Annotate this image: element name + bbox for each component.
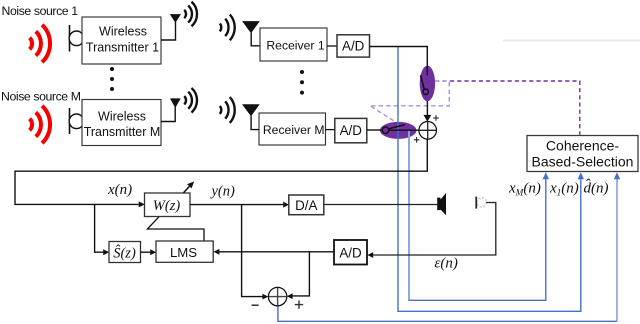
svg-text:Wireless: Wireless xyxy=(98,110,146,124)
block: Receiver 1 xyxy=(260,28,327,61)
svg-text:x1(n): x1(n) xyxy=(549,180,579,197)
svg-text:d̂(n): d̂(n) xyxy=(584,179,609,196)
svg-text:A/D: A/D xyxy=(339,245,362,260)
svg-text:LMS: LMS xyxy=(170,245,197,260)
dashed control line branch to switch S2 xyxy=(371,82,450,106)
wire Receiver 1 to A/D xyxy=(327,45,337,47)
svg-text:Receiver M: Receiver M xyxy=(263,123,325,137)
wire S-hat(z) to LMS xyxy=(141,251,151,253)
blue arrowhead into Coherence box (x1) xyxy=(578,172,584,179)
block: Receiver M xyxy=(259,113,326,145)
switch S2 contact xyxy=(382,127,388,133)
dashed control diagonal into switch S2 xyxy=(371,106,396,122)
wire x(n): summer 1 output down, left and down to W(z) xyxy=(15,139,427,204)
minus sign at summer 2 xyxy=(252,304,259,306)
radio waves TXM xyxy=(184,88,197,113)
branch wire y(n) down to summer 2 xyxy=(242,205,263,297)
plus sign bottom left of summer 1 xyxy=(414,137,420,143)
svg-text:D/A: D/A xyxy=(295,198,317,213)
svg-text:ε(n): ε(n) xyxy=(435,256,458,272)
zigzag wire W(z) to LMS xyxy=(147,217,204,241)
loudspeaker xyxy=(437,198,440,211)
svg-text:x(n): x(n) xyxy=(107,182,132,198)
branch wire error to summer 2 xyxy=(293,252,310,296)
adaptation arrow on W(z) xyxy=(184,186,190,193)
error microphone xyxy=(477,198,486,207)
summer 2 (circle plus) xyxy=(268,287,286,305)
svg-text:Coherence-: Coherence- xyxy=(546,138,619,154)
microphone M xyxy=(69,108,71,134)
svg-text:Noise source 1: Noise source 1 xyxy=(2,4,79,18)
stray gray line artifact top right xyxy=(503,40,640,42)
wire x1(n) blue tap from A/D 1 output to Coherence box (middle U) xyxy=(398,47,581,312)
antenna TX1 xyxy=(161,22,176,41)
arrowhead into W(z) xyxy=(139,201,145,207)
dashed control line from Coherence-Based-Selection to switch S1 xyxy=(450,81,580,135)
arrowhead into summer 2 right xyxy=(287,293,293,299)
radio waves RX1 xyxy=(220,15,235,41)
arrowhead into S-hat(z) xyxy=(103,249,109,255)
svg-text:Ŝ(z): Ŝ(z) xyxy=(113,245,136,262)
svg-text:Noise source M: Noise source M xyxy=(1,90,81,104)
radio waves RXM xyxy=(220,97,235,123)
svg-text:Wireless: Wireless xyxy=(99,24,147,38)
noise waves icon M (red) xyxy=(30,106,50,143)
antenna RXM xyxy=(242,104,260,116)
wire switch S1 to summer 1 with arrow xyxy=(426,101,428,116)
block: A/D (channel M) xyxy=(335,118,367,142)
block: Wireless Transmitter M xyxy=(82,100,161,146)
block: W(z) adaptive filter xyxy=(145,193,191,217)
svg-text:W(z): W(z) xyxy=(153,198,181,214)
arrowhead into A/D (error) xyxy=(367,252,373,258)
switch S1 lever xyxy=(421,75,425,89)
wire A/D1 output into switch S1 xyxy=(370,47,428,76)
svg-text:xM(n): xM(n) xyxy=(508,180,541,197)
svg-text:Transmitter M: Transmitter M xyxy=(84,125,161,139)
block: Wireless Transmitter 1 xyxy=(82,17,161,64)
switch S2 lever xyxy=(389,125,405,129)
plus sign top right of summer 1 xyxy=(433,115,439,121)
vertical dots between receivers xyxy=(300,70,304,74)
block: A/D (error channel) xyxy=(334,240,367,265)
wire Receiver M to A/D xyxy=(326,129,335,131)
wire W(z) output to D/A xyxy=(190,204,283,206)
microphone 1 xyxy=(69,25,71,52)
block: D/A xyxy=(289,195,324,215)
wire A/D M output through switch S2 xyxy=(367,129,382,131)
blue arrowhead into Coherence box (xM) xyxy=(543,172,549,179)
svg-text:Receiver 1: Receiver 1 xyxy=(266,38,324,52)
svg-text:Transmitter 1: Transmitter 1 xyxy=(86,40,159,54)
vertical dots between transmitters xyxy=(110,67,114,71)
switch ellipse S2 (horizontal, Receiver M channel) xyxy=(380,122,417,139)
arrowhead into LMS right xyxy=(214,249,220,255)
plus sign at summer 2 xyxy=(295,300,303,308)
svg-text:Based-Selection: Based-Selection xyxy=(532,154,634,170)
antenna RX1 xyxy=(242,21,260,33)
switch S1 contact xyxy=(423,89,428,94)
wire xM(n) blue tap after switch S2 to Coherence box (inner U) xyxy=(409,131,546,301)
block: S-hat(z) secondary path estimate xyxy=(109,242,141,263)
svg-text:y(n): y(n) xyxy=(210,184,236,200)
wire A/D error output to LMS xyxy=(219,251,334,253)
wire D/A to loudspeaker xyxy=(324,204,438,206)
block: LMS xyxy=(156,241,213,262)
block: Coherence-Based-Selection xyxy=(527,136,638,172)
noise waves icon 1 (red) xyxy=(30,25,50,62)
block: A/D (channel 1) xyxy=(337,35,370,57)
arrowhead into D/A xyxy=(283,202,289,208)
arrowhead into summer 2 left xyxy=(262,294,268,300)
arrowhead into LMS xyxy=(150,249,156,255)
summer 1 (circle plus) xyxy=(419,122,437,140)
branch wire to S-hat(z) xyxy=(95,204,104,252)
svg-text:A/D: A/D xyxy=(340,123,363,138)
antenna TXM xyxy=(161,107,175,122)
switch ellipse S1 (vertical, Receiver 1 channel) xyxy=(420,66,435,102)
svg-text:A/D: A/D xyxy=(342,39,365,54)
wire d-hat(n) blue from summer 2 output to Coherence box (outer U) xyxy=(278,306,617,322)
blue arrowhead into Coherence box (d-hat) xyxy=(614,172,620,179)
wire error microphone to A/D xyxy=(373,203,496,256)
radio waves TX1 xyxy=(184,2,197,27)
